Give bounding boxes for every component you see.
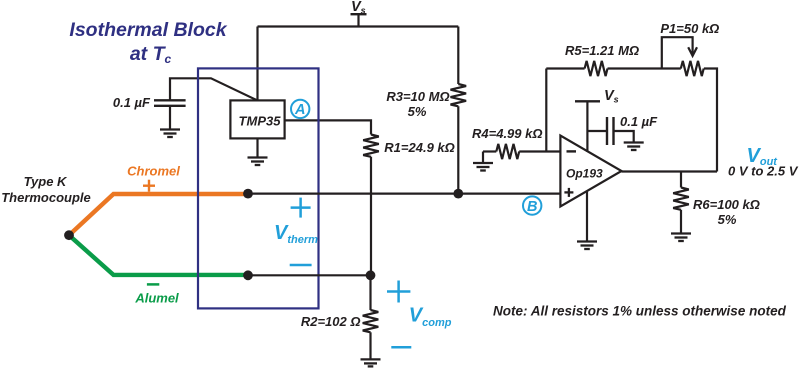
node B circle <box>523 196 541 214</box>
svg-text:0.1 µF: 0.1 µF <box>113 95 151 110</box>
svg-text:P1=50 kΩ: P1=50 kΩ <box>660 21 719 36</box>
resistor R6 <box>673 172 760 234</box>
svg-text:0 V to 2.5 V: 0 V to 2.5 V <box>728 164 799 179</box>
wire TMP35 to ground <box>256 139 258 158</box>
alumel label <box>134 284 179 305</box>
resistor R5 <box>565 43 639 76</box>
supply Vs op-amp <box>575 88 619 152</box>
resistor R2 <box>301 275 378 359</box>
svg-text:0.1 µF: 0.1 µF <box>620 114 658 129</box>
svg-text:R4=4.99 kΩ: R4=4.99 kΩ <box>472 126 543 141</box>
wire alumel <box>69 235 248 275</box>
capacitor C2 0.1uF bypass <box>587 114 658 145</box>
isothermal block box <box>198 68 319 308</box>
svg-text:R1=24.9 kΩ: R1=24.9 kΩ <box>384 140 455 155</box>
svg-text:Type K: Type K <box>24 174 68 189</box>
wire P1 to output node <box>704 69 717 172</box>
ground below R4 <box>473 163 493 171</box>
ground below op-amp <box>577 242 597 250</box>
Vout label <box>728 145 799 179</box>
svg-text:Thermocouple: Thermocouple <box>1 190 91 205</box>
svg-text:Alumel: Alumel <box>134 291 179 306</box>
svg-text:Note: All resistors 1% unless: Note: All resistors 1% unless otherwise … <box>493 304 787 319</box>
ground below R6 <box>671 234 691 242</box>
node A circle <box>291 100 309 118</box>
ground below R2 <box>361 359 381 366</box>
capacitor C1 0.1uF <box>113 78 257 129</box>
resistor R3 <box>386 27 466 194</box>
wire chromel <box>69 194 248 235</box>
svg-text:R6=100 kΩ: R6=100 kΩ <box>693 197 760 212</box>
chromel label <box>127 164 180 192</box>
wire left vertical rail to TMP35 <box>256 27 258 101</box>
svg-text:A: A <box>294 102 305 118</box>
wire feedback left vertical <box>545 69 547 152</box>
ground below C2 <box>624 143 644 151</box>
op-amp U1 Op193 <box>560 136 621 207</box>
node dot alumel end <box>243 270 253 280</box>
potentiometer P1 <box>660 21 719 76</box>
wire op-amp V- to ground <box>586 191 588 241</box>
wire plus rail to op-amp <box>248 193 560 195</box>
wire lower rail <box>248 274 371 276</box>
wire R1 bottom to lower rail <box>370 157 372 275</box>
svg-text:5%: 5% <box>408 104 427 119</box>
node dot R3 junction <box>453 189 463 199</box>
svg-text:Chromel: Chromel <box>127 164 180 179</box>
ground below TMP35 <box>248 158 268 166</box>
svg-text:5%: 5% <box>718 212 737 227</box>
wire Vs top rail <box>258 25 459 27</box>
svg-text:TMP35: TMP35 <box>239 114 282 129</box>
svg-text:Op193: Op193 <box>566 167 603 181</box>
ground below C1 <box>160 130 180 138</box>
wire node A: TMP35 output to R1 <box>285 120 371 134</box>
svg-text:R3=10 MΩ: R3=10 MΩ <box>386 89 449 104</box>
title Isothermal Block at Tc <box>69 19 227 66</box>
wire feedback top rail <box>546 67 584 69</box>
thermocouple junction node <box>64 230 74 240</box>
wire op-amp output <box>622 170 718 172</box>
wire R5 to P1 <box>608 67 681 69</box>
svg-text:R5=1.21 MΩ: R5=1.21 MΩ <box>565 43 639 58</box>
svg-text:R2=102 Ω: R2=102 Ω <box>301 314 361 329</box>
TMP35 U2 <box>230 100 284 138</box>
thermocouple label <box>1 174 91 205</box>
svg-text:Isothermal Block: Isothermal Block <box>69 19 227 41</box>
Vcomp label <box>387 281 452 348</box>
resistor R4 <box>472 126 560 163</box>
Vtherm label <box>274 198 318 265</box>
supply Vs top <box>351 0 367 27</box>
node dot chromel end <box>243 189 253 199</box>
svg-text:B: B <box>527 199 537 215</box>
resistor R1 <box>363 135 455 157</box>
node dot R1/R2 junction <box>366 270 376 280</box>
